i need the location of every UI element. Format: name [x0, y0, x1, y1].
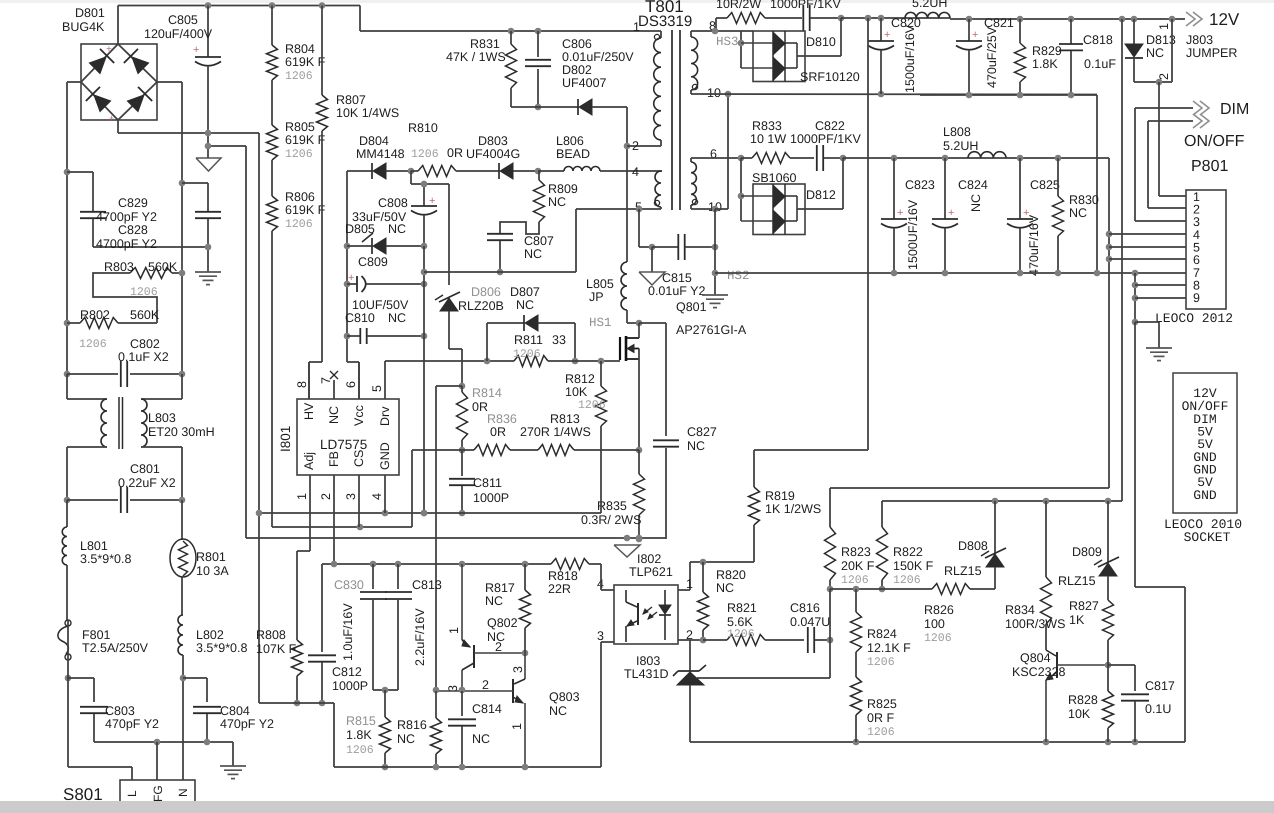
svg-text:8: 8	[295, 381, 309, 388]
capacitor C825	[1007, 158, 1060, 276]
svg-text:C805: C805	[168, 13, 198, 27]
svg-text:R811: R811	[514, 333, 543, 347]
svg-text:R808: R808	[256, 628, 286, 642]
resistor R823	[825, 488, 875, 592]
svg-text:RLZ20B: RLZ20B	[458, 299, 504, 313]
resistor R830 NC	[1053, 158, 1099, 273]
pin HV 8	[295, 362, 316, 420]
pin FB 2	[319, 451, 341, 564]
label I803	[624, 654, 668, 681]
wire 12V raw rail	[841, 15, 950, 22]
svg-text:4: 4	[632, 165, 639, 179]
svg-text:I801: I801	[278, 426, 293, 452]
svg-text:SOCKET: SOCKET	[1184, 530, 1231, 545]
transformer secondary winding 1	[691, 19, 721, 100]
svg-text:D809: D809	[1072, 545, 1102, 559]
svg-text:1000PF/1KV: 1000PF/1KV	[770, 0, 842, 11]
svg-text:RLZ15: RLZ15	[1058, 574, 1096, 588]
svg-text:L806: L806	[556, 134, 584, 148]
resistor R806	[267, 160, 326, 231]
capacitor C829	[179, 180, 221, 272]
svg-text:R817: R817	[485, 581, 515, 595]
page marker triangle y545	[614, 545, 640, 557]
svg-text:0R: 0R	[447, 146, 463, 160]
wire opto pin4	[601, 564, 614, 590]
transformer secondary winding 2	[691, 147, 722, 214]
svg-text:L802: L802	[196, 628, 224, 642]
svg-text:0.1uF: 0.1uF	[1084, 57, 1116, 71]
pin NC 7	[319, 371, 341, 424]
svg-text:KSC2328: KSC2328	[1012, 665, 1066, 679]
svg-text:1206: 1206	[79, 338, 107, 351]
resistor R831	[446, 28, 517, 107]
wire feedback tap x436	[435, 386, 437, 690]
capacitor C802	[64, 337, 186, 387]
svg-text:R823: R823	[841, 545, 871, 559]
wire R807 to HV pin	[309, 362, 322, 399]
svg-text:R814: R814	[472, 386, 502, 400]
svg-text:D810: D810	[806, 35, 836, 49]
svg-text:R827: R827	[1069, 599, 1099, 613]
wire right gnd drop	[1135, 322, 1185, 742]
diode D813 NC	[1125, 19, 1176, 82]
svg-text:47K / 1WS: 47K / 1WS	[446, 50, 506, 64]
wire 5V feed x1109	[1106, 158, 1113, 488]
svg-text:MM4148: MM4148	[356, 147, 405, 161]
svg-text:HS3: HS3	[716, 35, 739, 49]
stub R810 tap	[411, 171, 449, 187]
capacitor C803	[68, 678, 159, 742]
wire adj gnd row y703	[259, 703, 334, 767]
snubber cap C819	[770, 0, 844, 31]
svg-text:1000PF/1KV: 1000PF/1KV	[790, 132, 862, 146]
capacitor C822	[790, 119, 862, 171]
socket list box	[1173, 373, 1237, 513]
svg-text:100R/3WS: 100R/3WS	[1005, 617, 1065, 631]
svg-text:1: 1	[633, 20, 640, 34]
svg-text:470uF/25V: 470uF/25V	[985, 26, 999, 88]
fuse F801	[58, 620, 149, 660]
zener D809 RLZ15	[1058, 501, 1119, 600]
svg-text:619K F: 619K F	[285, 133, 326, 147]
svg-text:C806: C806	[562, 37, 592, 51]
svg-text:C816: C816	[790, 601, 820, 615]
svg-text:1000P: 1000P	[332, 679, 368, 693]
svg-text:1000P: 1000P	[473, 491, 509, 505]
capacitor C820	[868, 16, 921, 94]
IC I801 LD7575 box	[278, 399, 399, 475]
svg-text:5.2UH: 5.2UH	[912, 0, 947, 10]
svg-text:1206: 1206	[893, 574, 921, 587]
capacitor C818	[1059, 19, 1116, 95]
svg-text:R831: R831	[470, 37, 500, 51]
svg-text:R806: R806	[285, 190, 315, 204]
svg-text:1206: 1206	[285, 148, 313, 161]
svg-text:T2.5A/250V: T2.5A/250V	[82, 641, 149, 655]
resistor R808	[256, 628, 303, 706]
wire bridge right AC	[157, 82, 182, 374]
svg-text:10R/2W: 10R/2W	[716, 0, 761, 11]
svg-text:4700pF Y2: 4700pF Y2	[96, 210, 157, 224]
svg-text:1206: 1206	[924, 632, 952, 645]
svg-text:FB: FB	[327, 451, 341, 467]
wire Vcc left arm	[347, 171, 359, 399]
svg-text:C815: C815	[662, 271, 692, 285]
wire divider row y589	[830, 586, 932, 593]
wire opto pin3	[601, 642, 614, 767]
zener D806 RLZ20B	[435, 285, 504, 386]
label LEOCO 2010 SOCKET	[1164, 517, 1242, 545]
svg-text:R819: R819	[765, 489, 795, 503]
svg-text:1.8K: 1.8K	[1032, 57, 1058, 71]
svg-text:1: 1	[295, 493, 309, 500]
ground near C829	[195, 244, 221, 285]
svg-text:100: 100	[924, 617, 945, 631]
capacitor C805	[193, 2, 221, 158]
svg-text:SB1060: SB1060	[752, 171, 797, 185]
fusible resistor R801	[170, 500, 229, 615]
wire clamp row y501	[882, 498, 1122, 505]
svg-text:CS: CS	[352, 450, 366, 467]
svg-text:Adj: Adj	[302, 452, 316, 470]
svg-text:SRF10120: SRF10120	[800, 70, 860, 84]
wire aux row y272	[424, 209, 645, 272]
svg-text:1206: 1206	[411, 148, 439, 161]
svg-text:1: 1	[1157, 23, 1171, 30]
svg-text:1206: 1206	[727, 628, 755, 641]
svg-text:TL431D: TL431D	[624, 667, 668, 681]
svg-text:619K F: 619K F	[285, 55, 326, 69]
resistor R827 1K	[1069, 599, 1114, 665]
wire source sense	[636, 359, 643, 453]
wire GND vertical x259	[258, 133, 260, 703]
pin Drv 5	[370, 361, 392, 426]
svg-text:1: 1	[447, 627, 461, 634]
capacitor C809	[344, 255, 428, 312]
wire bridge left AC	[67, 82, 81, 374]
bridge rectifier D801	[81, 6, 157, 134]
svg-text:150K F: 150K F	[893, 559, 934, 573]
inductor L808	[943, 125, 1006, 158]
node C805 bottom row	[205, 143, 246, 150]
svg-text:Q804: Q804	[1020, 651, 1051, 665]
svg-text:5.6K: 5.6K	[727, 615, 753, 629]
svg-text:ET20 30mH: ET20 30mH	[148, 425, 215, 439]
wire pin5 tap	[636, 206, 656, 251]
resistor R826	[924, 584, 970, 646]
wire R806 to CS row	[271, 231, 273, 527]
connector S801	[63, 742, 195, 813]
svg-text:UF4007: UF4007	[562, 76, 607, 90]
svg-text:0R F: 0R F	[867, 711, 894, 725]
svg-text:1: 1	[686, 577, 693, 591]
wire R819 to opto	[678, 559, 754, 590]
svg-text:+: +	[429, 195, 435, 207]
svg-text:C808: C808	[378, 196, 408, 210]
svg-text:6: 6	[1193, 253, 1200, 267]
svg-text:R825: R825	[867, 697, 897, 711]
wire D810 out	[797, 18, 841, 56]
bottom chrome bar	[0, 801, 1274, 813]
resistor R836 0R	[462, 412, 517, 456]
wire DIM line	[1135, 108, 1193, 221]
svg-text:C811: C811	[473, 476, 502, 490]
svg-text:I803: I803	[636, 654, 660, 668]
choke L803	[67, 374, 215, 500]
pin Vcc 6	[344, 362, 366, 426]
svg-text:NC: NC	[716, 581, 734, 595]
resistor R818 22R	[548, 559, 601, 597]
svg-text:L: L	[125, 790, 139, 797]
svg-text:FG: FG	[151, 785, 165, 802]
svg-text:NC: NC	[549, 704, 567, 718]
svg-text:10 3A: 10 3A	[196, 564, 229, 578]
svg-text:D804: D804	[359, 134, 389, 148]
resistor R812 10K	[565, 361, 607, 513]
wire 12V rail	[950, 16, 1185, 23]
resistor R815	[346, 690, 391, 770]
svg-text:1: 1	[510, 723, 524, 730]
transformer core	[672, 30, 680, 210]
wire opto pin2 node	[700, 637, 707, 644]
svg-text:C827: C827	[687, 425, 717, 439]
svg-text:R812: R812	[565, 372, 595, 386]
capacitor C812	[308, 564, 368, 706]
svg-text:C810: C810	[345, 311, 375, 325]
resistor R810	[408, 121, 499, 177]
capacitor C804	[183, 678, 274, 742]
svg-text:+: +	[972, 29, 978, 41]
svg-text:C804: C804	[220, 704, 250, 718]
svg-text:R828: R828	[1068, 693, 1098, 707]
capacitor C823	[881, 158, 935, 273]
wire fb rail y564	[322, 561, 551, 568]
wire 12V drop x1122	[1121, 19, 1123, 501]
svg-text:R802: R802	[80, 308, 110, 322]
svg-text:D803: D803	[478, 134, 508, 148]
resistor R805	[267, 80, 326, 161]
svg-text:20K F: 20K F	[841, 559, 875, 573]
wire sec gnd row y94	[700, 91, 1097, 98]
svg-text:1206: 1206	[285, 218, 313, 231]
zener D808 RLZ15	[944, 501, 1006, 589]
svg-text:120uF/400V: 120uF/400V	[144, 27, 213, 41]
resistor R809 NC	[534, 171, 578, 222]
svg-text:3: 3	[1193, 215, 1200, 229]
wire CS row y450	[412, 450, 462, 527]
wire pin8 row	[700, 28, 753, 35]
diode D804	[347, 134, 414, 179]
wire C830 C813 join	[373, 687, 398, 694]
svg-text:NC: NC	[485, 594, 503, 608]
svg-text:I802: I802	[637, 552, 661, 566]
label P801	[1191, 158, 1228, 175]
svg-text:RLZ15: RLZ15	[944, 564, 982, 578]
connector P801 box	[1186, 190, 1226, 309]
svg-text:5: 5	[370, 385, 384, 392]
svg-text:1206: 1206	[285, 70, 313, 83]
capacitor C813	[385, 564, 442, 690]
svg-text:R836: R836	[487, 412, 517, 426]
resistor R819	[749, 487, 822, 562]
wire gnd row y513	[256, 510, 601, 517]
resistor R835	[581, 450, 645, 542]
svg-text:D801: D801	[75, 6, 105, 20]
svg-text:22R: 22R	[548, 582, 571, 596]
svg-text:6: 6	[710, 147, 717, 161]
svg-text:3.5*9*0.8: 3.5*9*0.8	[196, 641, 247, 655]
svg-text:HV: HV	[302, 402, 316, 420]
svg-text:D808: D808	[958, 539, 988, 553]
svg-text:0.01uF/250V: 0.01uF/250V	[562, 50, 634, 64]
capacitor C806	[525, 28, 634, 111]
wire sec gnd row y273	[715, 270, 1186, 277]
svg-text:1.8K: 1.8K	[346, 728, 372, 742]
svg-text:10K: 10K	[565, 385, 588, 399]
svg-text:LEOCO 2012: LEOCO 2012	[1155, 311, 1233, 326]
svg-text:1206: 1206	[867, 656, 895, 669]
svg-text:C809: C809	[358, 255, 388, 269]
wire gnd row y95	[920, 92, 1097, 273]
pin GND 4	[370, 442, 392, 513]
ground HS2	[702, 269, 750, 308]
svg-text:2: 2	[1157, 73, 1171, 80]
capacitor C817	[1108, 665, 1175, 742]
resistor R816 NC	[397, 691, 442, 770]
resistor R820 NC	[698, 562, 746, 643]
diode D802	[511, 63, 627, 115]
svg-text:NC: NC	[1146, 46, 1164, 60]
svg-text:NC: NC	[397, 732, 415, 746]
svg-text:NC: NC	[327, 406, 341, 424]
svg-text:+: +	[106, 44, 112, 55]
svg-text:R816: R816	[397, 718, 427, 732]
svg-text:5.2UH: 5.2UH	[943, 139, 978, 153]
resistor R813 270R	[510, 412, 639, 456]
wire D812 out	[797, 158, 843, 209]
page marker triangle C815	[639, 247, 665, 285]
transistor Q804 KSC2328	[1012, 650, 1111, 742]
svg-text:D802: D802	[562, 63, 592, 77]
svg-text:1206: 1206	[346, 744, 374, 757]
svg-text:4700pF Y2: 4700pF Y2	[96, 237, 157, 251]
svg-text:C807: C807	[524, 234, 554, 248]
svg-text:+: +	[884, 29, 890, 41]
svg-text:10K 1/4WS: 10K 1/4WS	[336, 106, 399, 120]
svg-text:HS1: HS1	[589, 316, 612, 330]
svg-text:2: 2	[632, 139, 639, 153]
svg-text:Drv: Drv	[378, 406, 392, 426]
transformer primary winding	[627, 20, 661, 153]
labels C829 C828	[96, 196, 157, 251]
svg-text:470uF/16V: 470uF/16V	[1027, 214, 1041, 276]
svg-text:+: +	[348, 272, 354, 284]
capacitor C801	[64, 462, 186, 513]
wires P801 pins 4-6	[1109, 234, 1186, 259]
svg-text:0.22uF X2: 0.22uF X2	[118, 476, 176, 490]
transformer aux winding	[632, 165, 662, 214]
svg-text:NC: NC	[388, 222, 406, 236]
inductor L807	[905, 0, 950, 18]
svg-text:10: 10	[707, 86, 721, 100]
capacitor C827 NC	[639, 323, 717, 539]
inductor L801	[62, 500, 131, 620]
svg-text:0.047U: 0.047U	[790, 615, 830, 629]
svg-text:TLP621: TLP621	[629, 565, 673, 579]
rectifier D810 SRF10120	[716, 31, 860, 84]
mosfet Q801	[620, 300, 747, 361]
svg-text:R807: R807	[336, 93, 366, 107]
svg-text:F801: F801	[82, 628, 111, 642]
capacitor C828	[64, 169, 208, 247]
node F801 bottom	[65, 620, 72, 767]
svg-text:2: 2	[482, 678, 489, 692]
resistor R807	[317, 2, 400, 362]
svg-text:GND: GND	[1193, 488, 1217, 503]
ground Y-caps	[220, 766, 246, 779]
svg-text:+: +	[109, 113, 114, 123]
svg-text:R833: R833	[752, 119, 782, 133]
wire Vcc right arm x424	[421, 246, 428, 516]
svg-text:DIM: DIM	[1220, 101, 1249, 118]
svg-text:J803: J803	[1186, 33, 1213, 47]
svg-text:1206: 1206	[578, 399, 606, 412]
wire drv row	[385, 358, 514, 365]
svg-text:C830: C830	[334, 578, 364, 592]
svg-text:C822: C822	[815, 119, 845, 133]
label D801	[62, 6, 105, 34]
svg-text:R809: R809	[548, 182, 578, 196]
svg-text:R813: R813	[550, 412, 580, 426]
svg-text:0.3R/ 2WS: 0.3R/ 2WS	[581, 513, 641, 527]
svg-text:Vcc: Vcc	[352, 405, 366, 426]
svg-text:107K F: 107K F	[256, 642, 297, 656]
svg-text:DS3319: DS3319	[638, 13, 692, 30]
wire pin10 to gnd	[712, 91, 732, 295]
resistor R821	[703, 601, 804, 646]
resistor R825	[851, 652, 897, 742]
node B- row	[118, 130, 259, 137]
svg-text:3: 3	[344, 493, 358, 500]
wire 5V row y158	[700, 155, 744, 162]
svg-text:+: +	[948, 207, 954, 219]
resistor R803	[104, 260, 185, 299]
svg-text:R801: R801	[196, 550, 226, 564]
label LEOCO 2012	[1155, 311, 1233, 326]
transformer T801 labels	[638, 0, 692, 30]
wire opto pin2 row	[678, 639, 703, 641]
svg-text:1206: 1206	[841, 574, 869, 587]
wire C816 tap	[829, 589, 831, 640]
optocoupler I802 TLP621	[597, 552, 693, 644]
wire D802 to pin2	[624, 107, 631, 262]
diode D803	[466, 134, 541, 179]
wire TL431 rail y742	[690, 739, 1185, 746]
svg-text:6: 6	[344, 381, 358, 388]
gnd stub P801	[1132, 319, 1172, 361]
svg-text:R810: R810	[408, 121, 438, 135]
svg-text:C817: C817	[1145, 679, 1175, 693]
svg-text:270R 1/4WS: 270R 1/4WS	[520, 425, 591, 439]
svg-text:ON/OFF: ON/OFF	[1184, 133, 1245, 150]
resistor R804	[267, 2, 326, 83]
shunt ref I803 TL431D	[673, 640, 830, 742]
svg-text:470pF Y2: 470pF Y2	[105, 717, 159, 731]
svg-text:NC: NC	[472, 732, 490, 746]
svg-text:1206: 1206	[513, 348, 541, 361]
svg-text:1.0uF/16V: 1.0uF/16V	[341, 603, 355, 661]
wire D806 feed	[421, 181, 449, 285]
